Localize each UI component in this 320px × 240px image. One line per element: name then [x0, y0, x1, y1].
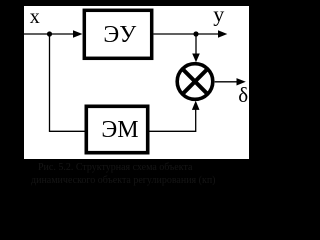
svg-text:y: y [213, 1, 224, 26]
block U3 (ЭМ) [86, 106, 147, 152]
arrowhead into block U1 [73, 30, 83, 37]
arrowhead into comparator top [192, 54, 200, 63]
wire: node B down to comparator [195, 34, 197, 54]
wire: input x to node A [24, 33, 50, 35]
wire: block U3 output to comparator bottom [150, 110, 196, 132]
comparator U2 (circle with X) [177, 64, 213, 100]
wire: feedback branch to block U3 input [49, 130, 85, 132]
svg-text:ЭУ: ЭУ [103, 22, 136, 48]
svg-text:ЭМ: ЭМ [101, 117, 138, 143]
wire: node A down feedback branch [49, 34, 51, 131]
block U1 (ЭУ) [84, 10, 151, 58]
node A (junction dot on input line) [47, 31, 52, 36]
caption line 2 [31, 176, 216, 186]
svg-text:δ: δ [238, 83, 248, 107]
caption line 1 [38, 163, 192, 173]
node B (junction dot on output line) [193, 31, 198, 36]
arrowhead of output delta [237, 78, 246, 85]
arrowhead into comparator bottom [192, 101, 200, 110]
svg-text:x: x [30, 6, 40, 28]
wire: comparator output to arrow delta [215, 81, 237, 83]
wire: node A to block U1 input arrow [50, 33, 75, 35]
arrowhead of output y [218, 30, 227, 37]
wire: block U1 output to node B and arrow y [154, 33, 219, 35]
